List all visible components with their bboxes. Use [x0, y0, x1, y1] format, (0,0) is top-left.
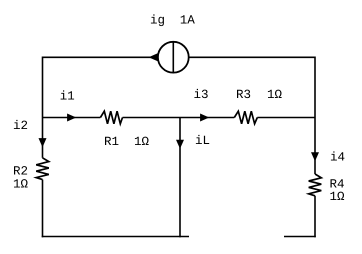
current source ig bar [172, 42, 174, 73]
current source ig circle [158, 42, 189, 73]
arrowhead i4 pointing down [311, 152, 319, 161]
label i2 [14, 120, 27, 129]
wire left vertical upper [42, 57, 44, 158]
label i3 [194, 89, 207, 98]
wire top left horizontal [43, 56, 158, 58]
arrowhead i1 pointing right [67, 114, 76, 122]
wire right vertical lower [314, 196, 316, 238]
label R3 [237, 90, 250, 99]
label i4 [331, 151, 345, 160]
wire middle horizontal segment 2 [123, 117, 235, 119]
resistor R4 zigzag [309, 174, 322, 196]
label R4 [331, 179, 344, 187]
wire bottom left horizontal [42, 236, 189, 238]
arrowhead ig pointing left [149, 53, 158, 61]
label R3 value 1 ohm [268, 90, 282, 98]
arrowhead i3 pointing right [200, 114, 209, 122]
label R2 [14, 166, 27, 174]
wire right vertical upper [314, 57, 316, 175]
wire top right horizontal [189, 56, 315, 58]
label 1A [181, 15, 195, 23]
wire middle horizontal segment 1 [43, 117, 101, 119]
label R1 value 1 ohm [135, 137, 149, 145]
resistor R3 zigzag [234, 111, 257, 124]
label ig [151, 14, 164, 26]
label R4 value 1 ohm [330, 192, 344, 200]
resistor R1 zigzag [100, 111, 122, 124]
label iL [196, 135, 209, 144]
label i1 [61, 90, 75, 99]
label R2 value 1 ohm [14, 179, 28, 187]
arrowhead iL pointing down [176, 140, 184, 149]
label R1 [105, 137, 118, 145]
wire middle horizontal segment 3 [257, 117, 315, 119]
wire left vertical lower [42, 180, 44, 238]
wire iL vertical [179, 118, 181, 238]
arrowhead i2 pointing down [39, 138, 47, 147]
wire bottom right stub [284, 236, 316, 238]
resistor R2 zigzag [36, 158, 49, 180]
